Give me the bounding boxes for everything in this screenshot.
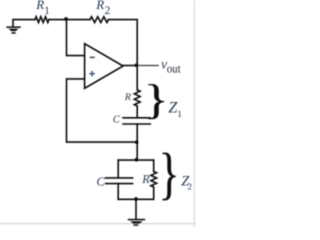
- resistor R of Z1: [134, 90, 140, 106]
- Z2 right edge lower: [153, 187, 155, 199]
- wire op-amp output to vout: [123, 65, 137, 67]
- ground top left: [6, 26, 20, 33]
- svg-text:1: 1: [44, 5, 50, 17]
- node A junction R1 R2: [64, 17, 68, 21]
- Z2 bottom node: [134, 197, 138, 201]
- wire R to C of Z1: [136, 106, 138, 117]
- svg-text:2: 2: [188, 182, 193, 192]
- wire R2 to output drop: [109, 20, 138, 66]
- svg-text:}: }: [144, 76, 169, 123]
- capacitor C of Z2: [106, 177, 133, 179]
- op-amp minus sign: [90, 56, 95, 58]
- Z2 right edge upper: [153, 160, 155, 171]
- wire bottom rail to ground: [135, 199, 137, 218]
- resistor R1: [35, 17, 49, 23]
- svg-text:C: C: [113, 114, 121, 125]
- wire output node down to R of Z1: [136, 66, 138, 90]
- Z2 box bottom rail: [118, 198, 154, 200]
- svg-text:R: R: [124, 92, 132, 103]
- Z2 top node: [135, 158, 139, 162]
- Z2 box top rail: [118, 159, 154, 161]
- wire C of Z1 down to node B and Z2: [136, 124, 138, 160]
- svg-text:R: R: [35, 0, 44, 12]
- wire R1 to R2: [49, 19, 90, 21]
- output node: [135, 63, 139, 67]
- wire noninverting input and feedback to node B: [67, 79, 138, 142]
- resistor R of Z2: [151, 172, 157, 188]
- svg-text:}: }: [159, 142, 180, 206]
- op-amp U1: [85, 44, 124, 89]
- op-amp plus sign: [89, 71, 95, 77]
- ground bottom: [128, 219, 146, 226]
- Z2 left edge lower: [117, 184, 119, 200]
- capacitor C of Z1: [123, 117, 150, 119]
- Z2 left edge upper: [117, 160, 119, 178]
- wire top from ground to R1: [13, 20, 35, 27]
- svg-text:C: C: [97, 174, 106, 188]
- resistor R2: [90, 17, 109, 23]
- wire inverting input: [67, 20, 85, 56]
- wire vout stub: [137, 65, 158, 67]
- svg-text:2: 2: [105, 5, 111, 17]
- node B feedback junction: [135, 140, 139, 144]
- svg-text:R: R: [141, 172, 150, 186]
- svg-text:1: 1: [177, 110, 182, 120]
- svg-text:R: R: [95, 0, 104, 12]
- svg-text:out: out: [167, 61, 181, 75]
